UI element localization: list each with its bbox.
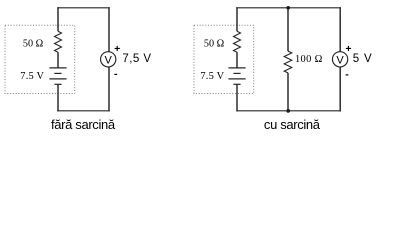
svg-text:7.5 V: 7.5 V bbox=[200, 71, 224, 82]
dashed box around real source (right) bbox=[194, 25, 254, 93]
svg-text:+: + bbox=[114, 43, 120, 55]
svg-text:+: + bbox=[345, 43, 351, 55]
wire middle branch top stub bbox=[287, 7, 289, 51]
wire left branch upper bbox=[57, 7, 59, 31]
svg-text:fără sarcină: fără sarcină bbox=[51, 117, 116, 132]
load resistor 100 ohm bbox=[284, 51, 292, 73]
resistor R internal 50 ohm bbox=[55, 31, 62, 52]
svg-text:50 Ω: 50 Ω bbox=[23, 38, 44, 49]
svg-text:7,5 V: 7,5 V bbox=[122, 53, 151, 65]
wire middle branch bottom stub bbox=[287, 73, 289, 112]
svg-text:50 Ω: 50 Ω bbox=[204, 38, 225, 49]
wire right branch upper (right circuit) bbox=[339, 7, 341, 52]
wire bottom rail bbox=[57, 110, 109, 112]
svg-text:cu sarcină: cu sarcină bbox=[264, 117, 321, 132]
wire between resistor and battery bbox=[57, 52, 59, 68]
wire top rail (right circuit) bbox=[236, 7, 341, 9]
wire bottom rail (right circuit) bbox=[236, 110, 341, 112]
svg-text:-: - bbox=[114, 68, 118, 80]
svg-text:V: V bbox=[105, 55, 113, 67]
svg-text:-: - bbox=[345, 68, 349, 80]
wire top rail bbox=[57, 7, 109, 9]
svg-text:100 Ω: 100 Ω bbox=[295, 54, 323, 65]
voltmeter V2 circle bbox=[332, 52, 347, 67]
dashed box around real source (internal resistance + ideal battery) bbox=[5, 25, 75, 93]
wire right branch lower bbox=[108, 67, 110, 112]
battery 7.5 V (plates) bbox=[49, 68, 66, 84]
wire left branch upper (right circuit) bbox=[236, 7, 238, 31]
svg-text:5 V: 5 V bbox=[353, 53, 373, 65]
wire between resistor and battery (right) bbox=[236, 52, 238, 68]
battery 7.5 V (right, plates) bbox=[228, 68, 245, 84]
wire right branch lower (right circuit) bbox=[339, 67, 341, 112]
wire right branch upper bbox=[108, 7, 110, 52]
resistor R internal 50 ohm (right) bbox=[234, 31, 241, 52]
svg-text:V: V bbox=[336, 55, 344, 67]
voltmeter V1 circle bbox=[101, 52, 116, 67]
svg-text:7.5 V: 7.5 V bbox=[20, 71, 44, 82]
wire left branch lower bbox=[57, 84, 59, 111]
wire left branch lower (right circuit) bbox=[236, 84, 238, 111]
junction node bottom bbox=[286, 109, 290, 113]
junction node top bbox=[286, 6, 290, 10]
